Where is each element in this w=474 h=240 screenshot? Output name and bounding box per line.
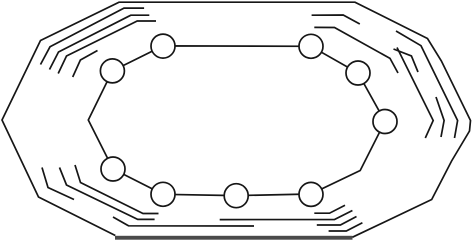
base bar	[115, 236, 353, 240]
corner echo stroke BR-a	[314, 205, 345, 213]
corner echo stroke TR-s2	[394, 49, 419, 72]
node N2	[299, 34, 323, 58]
node N8	[101, 157, 125, 181]
corner echo stroke BL-b	[60, 168, 155, 220]
corner echo stroke TL-c	[58, 21, 156, 74]
corner echo stroke TR-outer	[396, 31, 458, 138]
corner echo stroke TL-a	[41, 8, 145, 64]
corner echo stroke TL-d	[73, 51, 98, 78]
ring bus polygon	[88, 46, 385, 196]
corner echo stroke TL-b	[50, 15, 150, 69]
node N1	[151, 34, 175, 58]
node N7	[151, 182, 175, 206]
node N6	[224, 184, 248, 208]
corner echo stroke BR-c	[317, 217, 357, 226]
node N9	[100, 59, 124, 83]
corner echo stroke TR-b	[314, 27, 398, 73]
corner echo stroke BL-a	[42, 168, 74, 200]
bottom edge echo stroke BL-d	[113, 217, 254, 226]
corner echo stroke TR-a	[312, 15, 360, 24]
corner echo stroke BL-c	[75, 165, 159, 214]
corner echo stroke TR-inner	[397, 48, 433, 139]
corner echo stroke BR-b	[220, 211, 353, 220]
corner echo stroke BR-d	[329, 223, 363, 231]
node N3	[346, 61, 370, 85]
node N5	[299, 182, 323, 206]
corner echo stroke TR-mid chevron	[436, 97, 444, 137]
node N4	[373, 110, 397, 134]
